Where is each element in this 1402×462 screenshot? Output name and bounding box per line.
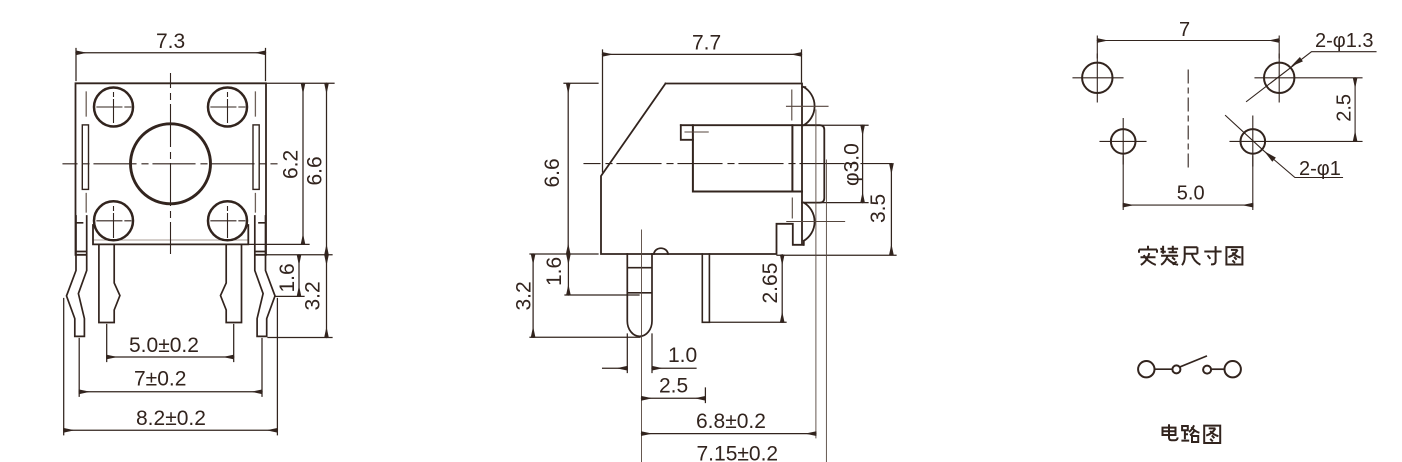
glyph 安 bbox=[1139, 246, 1157, 265]
plunger button bbox=[802, 125, 824, 202]
dim 1.0 bbox=[627, 334, 652, 373]
front pin centerline bbox=[641, 230, 643, 462]
glyph 图 bbox=[1204, 426, 1220, 443]
svg-text:1.0: 1.0 bbox=[668, 344, 697, 367]
hole mid-right (phi1) bbox=[1241, 129, 1266, 154]
front pin bbox=[627, 254, 652, 336]
inner pin left bbox=[99, 244, 120, 322]
base bottom step bbox=[93, 225, 248, 244]
dim 2.5 bbox=[704, 388, 706, 403]
dim phi3.0 bbox=[821, 125, 868, 202]
glyph 寸 bbox=[1204, 246, 1221, 264]
svg-text:φ3.0: φ3.0 bbox=[841, 143, 864, 186]
inner pin right bbox=[221, 244, 242, 322]
base bottom step faint top line bbox=[93, 239, 248, 241]
hole mid-left (phi1) bbox=[1111, 129, 1136, 154]
svg-text:7.15±0.2: 7.15±0.2 bbox=[697, 443, 779, 462]
corner tick bottom-left bbox=[85, 194, 87, 213]
glyph 电 bbox=[1163, 424, 1178, 440]
corner circle top-right bbox=[208, 88, 247, 127]
body outline bbox=[76, 83, 267, 255]
dim 1.6 bbox=[276, 295, 305, 297]
outer pin left bbox=[67, 216, 87, 336]
hole top-left (phi1.3) bbox=[1082, 63, 1112, 93]
hole top-right (phi1.3) bbox=[1264, 63, 1294, 93]
svg-text:2.65: 2.65 bbox=[759, 263, 782, 304]
vertical centerline bbox=[1187, 70, 1189, 167]
svg-text:7±0.2: 7±0.2 bbox=[134, 368, 186, 391]
wire right bbox=[1212, 368, 1224, 370]
svg-text:5.0±0.2: 5.0±0.2 bbox=[129, 334, 199, 357]
centermark circle bottom-right bbox=[211, 207, 245, 238]
svg-text:6.6: 6.6 bbox=[304, 156, 327, 185]
dim 7±0.2 bbox=[79, 339, 262, 397]
svg-text:2-φ1: 2-φ1 bbox=[1299, 158, 1341, 180]
glyph 图 bbox=[1226, 247, 1242, 264]
dim 6.2 bbox=[249, 83, 335, 244]
svg-text:7.7: 7.7 bbox=[692, 32, 721, 55]
switch lever bbox=[1181, 356, 1207, 366]
side tab left bbox=[82, 125, 88, 189]
corner tick bottom-right bbox=[254, 194, 256, 213]
wire left bbox=[1155, 368, 1172, 370]
svg-text:3.2: 3.2 bbox=[513, 281, 536, 310]
plate notch bbox=[681, 125, 693, 140]
dim 3.2 bbox=[268, 337, 332, 339]
top bump centermark bbox=[787, 90, 829, 120]
svg-text:8.2±0.2: 8.2±0.2 bbox=[136, 407, 206, 430]
dim 6.6 side bbox=[564, 82, 598, 84]
dim 2.5 (right) bbox=[1334, 78, 1356, 142]
glyph 装 bbox=[1160, 246, 1178, 265]
svg-text:3.5: 3.5 bbox=[867, 194, 890, 223]
centermark hole top-right bbox=[1255, 54, 1362, 102]
terminal circle left bbox=[1138, 361, 1154, 377]
ext line 6.8 bump apex bbox=[815, 110, 817, 438]
centermark hole top-left bbox=[1073, 54, 1123, 102]
plate top edge bbox=[681, 124, 802, 126]
glyph 尺 bbox=[1182, 247, 1200, 265]
svg-text:7: 7 bbox=[1179, 19, 1190, 41]
terminal circle right bbox=[1225, 361, 1241, 377]
dim 3.5 bbox=[777, 254, 896, 256]
vertical centerline bbox=[170, 74, 172, 254]
svg-text:6.6: 6.6 bbox=[541, 158, 564, 187]
corner circle bottom-right bbox=[208, 201, 247, 240]
side tab right bbox=[253, 125, 259, 189]
svg-text:2.5: 2.5 bbox=[1334, 94, 1356, 122]
svg-text:7.3: 7.3 bbox=[156, 30, 185, 53]
top bump arc bbox=[804, 87, 815, 125]
glyph 路 bbox=[1181, 425, 1199, 442]
dim 2.65 bbox=[710, 321, 786, 323]
label 电路图 bbox=[1163, 424, 1221, 443]
body outline bbox=[601, 84, 803, 255]
lower bump centermark bbox=[787, 198, 845, 222]
dim 7.3 bbox=[76, 49, 266, 81]
svg-text:6.2: 6.2 bbox=[280, 150, 303, 179]
centermark hole mid-right bbox=[1230, 116, 1362, 166]
dim 8.2±0.2 bbox=[64, 299, 278, 435]
svg-text:1.6: 1.6 bbox=[276, 263, 299, 292]
svg-text:6.8±0.2: 6.8±0.2 bbox=[696, 410, 766, 433]
dim 5.0±0.2 bbox=[107, 325, 234, 362]
dim 6.6 bbox=[267, 254, 333, 256]
dim 3.2 side bbox=[530, 336, 640, 338]
centermark hole mid-left bbox=[1100, 119, 1146, 165]
center button circle bbox=[131, 124, 211, 204]
dim 6.8±0.2 bbox=[642, 433, 816, 435]
svg-text:2-φ1.3: 2-φ1.3 bbox=[1315, 30, 1374, 52]
inner contact plate bbox=[693, 125, 802, 191]
ext line 7.15 plunger face bbox=[825, 160, 827, 462]
centermark circle top-right bbox=[211, 93, 245, 123]
label 安装尺寸图 bbox=[1139, 246, 1242, 265]
back pin bbox=[702, 254, 709, 322]
dim 7.7 bbox=[603, 50, 802, 172]
horizontal centerline bbox=[63, 163, 277, 165]
bottom edge relief bump bbox=[654, 248, 668, 254]
contact circle right bbox=[1203, 366, 1211, 374]
corner circle top-left bbox=[94, 88, 133, 127]
centermark circle bottom-left bbox=[97, 207, 131, 238]
horizontal centerline bbox=[584, 163, 891, 165]
svg-text:5.0: 5.0 bbox=[1177, 183, 1205, 205]
leader 2-phi1.3 bbox=[1247, 30, 1377, 102]
corner tick top-left bbox=[85, 92, 87, 116]
corner tick top-right bbox=[254, 92, 256, 116]
svg-text:3.2: 3.2 bbox=[302, 281, 325, 310]
svg-text:1.6: 1.6 bbox=[543, 257, 566, 286]
corner circle bottom-left bbox=[94, 201, 133, 240]
leader 2-phi1 bbox=[1226, 116, 1343, 180]
top bump cap lines bbox=[802, 87, 806, 125]
dim 5.0 (bottom) bbox=[1123, 156, 1253, 210]
centermark circle top-left bbox=[97, 93, 131, 123]
dim 1.6 side bbox=[530, 254, 639, 295]
outer pin right bbox=[255, 216, 275, 336]
svg-text:2.5: 2.5 bbox=[659, 375, 688, 398]
lower bump arc bbox=[804, 203, 815, 245]
plate notch tick bbox=[685, 131, 708, 133]
dim 7 (top) bbox=[1097, 19, 1279, 58]
contact circle left bbox=[1172, 365, 1180, 373]
